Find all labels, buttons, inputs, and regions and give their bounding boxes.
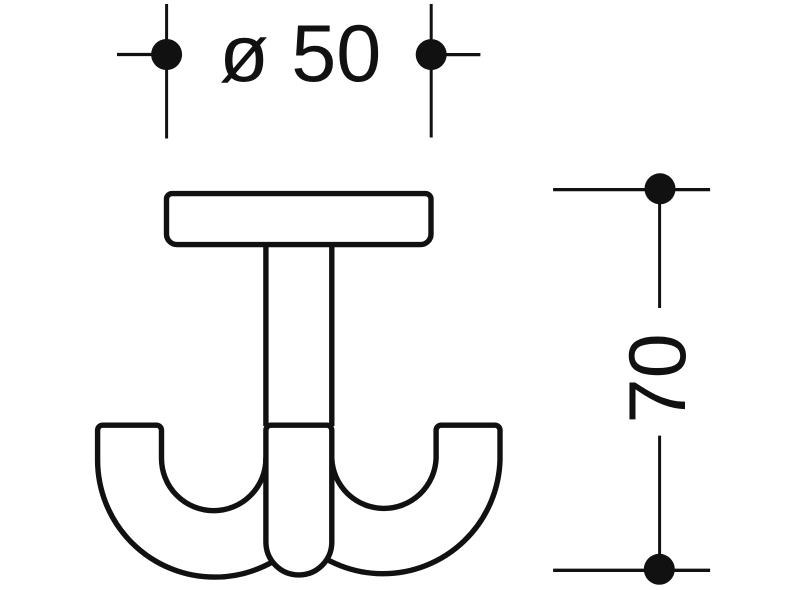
dimension extension line left (ø50) — [165, 4, 168, 139]
dimension tick right (ø50) — [431, 53, 480, 56]
dimension extension line right (ø50) — [430, 4, 433, 138]
dimension dot right (ø50) — [416, 39, 447, 70]
svg-text:70: 70 — [613, 333, 703, 423]
dimension vertical line upper segment (70) — [658, 189, 661, 308]
stem left line — [263, 245, 268, 426]
ceiling plate — [167, 194, 432, 245]
right hook — [266, 425, 500, 573]
dimension top dot (70) — [645, 173, 676, 204]
stem right line — [329, 245, 334, 426]
dimension vertical line lower segment (70) — [658, 436, 661, 570]
dimension top line (70) — [553, 188, 710, 191]
left hook — [98, 425, 332, 577]
dimension tick left (ø50) — [117, 53, 167, 56]
dimension bottom dot (70) — [644, 554, 675, 585]
dimension bottom line (70) — [553, 569, 710, 572]
dimension dot left (ø50) — [151, 39, 182, 70]
svg-text:ø 50: ø 50 — [219, 9, 381, 99]
center hook pill — [266, 425, 332, 575]
